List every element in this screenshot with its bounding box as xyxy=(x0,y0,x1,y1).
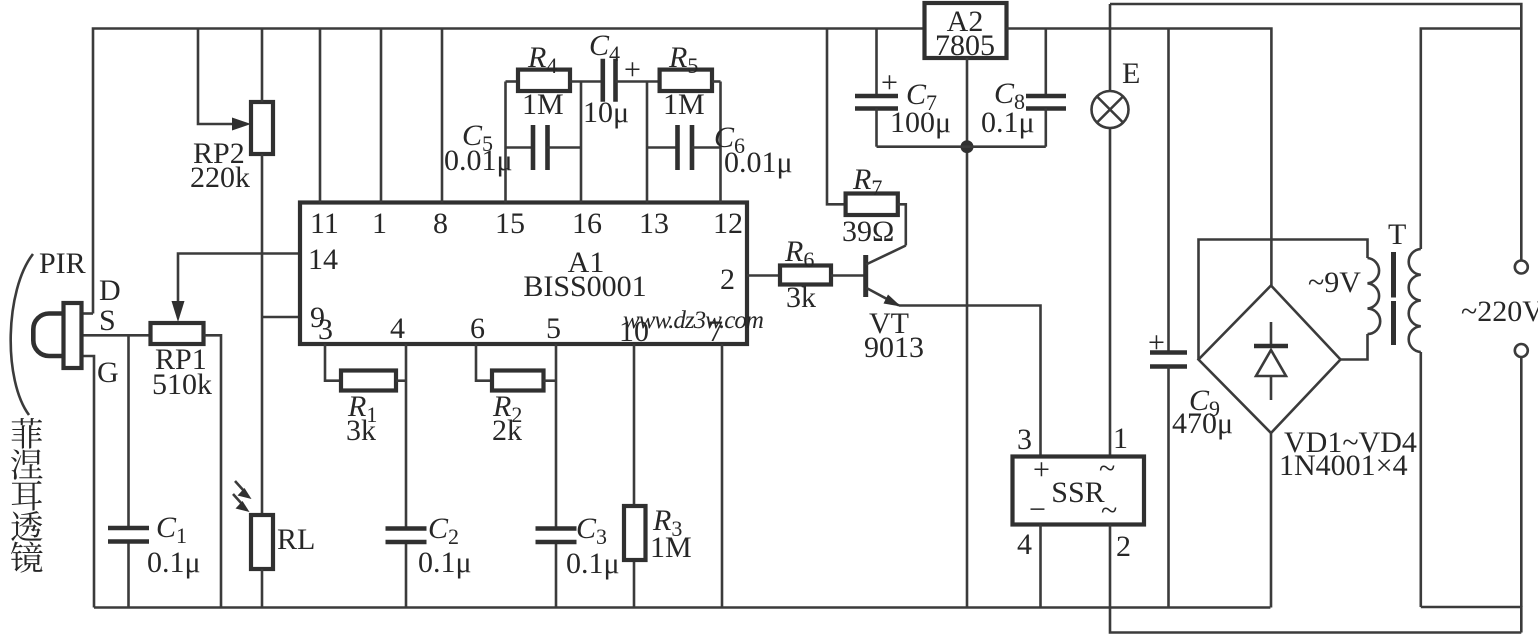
wire D lead xyxy=(82,312,94,315)
svg-text:1: 1 xyxy=(1113,422,1128,455)
wire bridge AC right to secondary bottom xyxy=(1341,334,1368,360)
svg-text:16: 16 xyxy=(572,207,602,240)
svg-text:470μ: 470μ xyxy=(1172,407,1233,440)
PIR sensor dome xyxy=(33,314,63,357)
svg-text:0.01μ: 0.01μ xyxy=(724,146,793,179)
bridge rectifier VD1~VD4 xyxy=(1199,286,1341,434)
svg-text:~: ~ xyxy=(1101,494,1117,527)
wire pin 11 xyxy=(319,29,322,203)
wire mains top xyxy=(1110,4,1521,261)
resistor R4 xyxy=(506,80,519,83)
wire pin 5 xyxy=(555,344,558,529)
svg-text:11: 11 xyxy=(310,207,339,240)
svg-text:0.1μ: 0.1μ xyxy=(147,546,201,579)
Fresnel lens arc xyxy=(11,254,33,415)
capacitor C9 xyxy=(1167,29,1170,353)
svg-text:1: 1 xyxy=(372,207,387,240)
wire A2 ground xyxy=(966,58,969,608)
svg-text:+: + xyxy=(1033,453,1050,486)
PIR sensor package xyxy=(64,303,82,368)
svg-text:1N4001×4: 1N4001×4 xyxy=(1279,449,1408,482)
wire pin 13 xyxy=(646,82,649,203)
capacitor C2 xyxy=(386,526,427,531)
svg-text:5: 5 xyxy=(546,312,561,345)
wire emitter to SSR pin3 xyxy=(899,306,1041,457)
svg-text:D: D xyxy=(99,274,121,307)
wire pin 7 xyxy=(721,344,724,608)
wire pin 1 xyxy=(380,29,383,203)
svg-text:1M: 1M xyxy=(522,88,564,121)
svg-text:~9V: ~9V xyxy=(1308,266,1361,299)
svg-text:9013: 9013 xyxy=(864,331,924,364)
capacitor C7 xyxy=(875,29,878,97)
wire pin 3 stub xyxy=(325,344,341,381)
svg-text:0.1μ: 0.1μ xyxy=(566,547,620,580)
resistor R3 xyxy=(624,506,646,560)
svg-text:SSR: SSR xyxy=(1051,476,1104,509)
svg-text:7: 7 xyxy=(708,315,723,348)
wire primary bottom to mains neutral xyxy=(1421,607,1522,633)
wire pin 10 xyxy=(633,344,636,506)
svg-text:BISS0001: BISS0001 xyxy=(523,270,646,303)
svg-text:8: 8 xyxy=(433,207,448,240)
svg-text:RL: RL xyxy=(277,523,315,556)
wire pin 16 xyxy=(580,82,583,203)
wire top +5V rail xyxy=(93,29,925,314)
svg-text:14: 14 xyxy=(308,243,338,276)
svg-text:3: 3 xyxy=(318,313,333,346)
svg-text:510k: 510k xyxy=(152,368,212,401)
wire mains to transformer primary xyxy=(1421,29,1522,250)
svg-text:−: − xyxy=(1029,493,1046,526)
resistor R2 xyxy=(492,371,544,391)
svg-text:7805: 7805 xyxy=(935,29,995,62)
transistor VT 9013 xyxy=(863,255,868,297)
svg-text:0.1μ: 0.1μ xyxy=(418,546,472,579)
svg-text:2: 2 xyxy=(1116,530,1131,563)
wire pin 6 stub xyxy=(476,344,492,381)
wire G lead xyxy=(82,356,95,608)
svg-text:3: 3 xyxy=(1017,423,1032,456)
wire SSR pin 4 xyxy=(1039,525,1042,608)
wire SSR pin 2 to mains bottom xyxy=(1110,525,1521,633)
potentiometer RP2 xyxy=(251,102,273,154)
svg-text:15: 15 xyxy=(495,207,525,240)
wire pin 8 xyxy=(441,29,444,203)
svg-text:PIR: PIR xyxy=(39,247,86,280)
svg-text:+: + xyxy=(1148,326,1165,359)
svg-text:1M: 1M xyxy=(663,88,705,121)
label Fresnel lens (Chinese) xyxy=(12,418,42,449)
photoresistor RL xyxy=(251,515,273,569)
svg-text:12: 12 xyxy=(713,207,743,240)
transformer core xyxy=(1391,252,1396,298)
wire pin9 to RP2 line xyxy=(262,316,300,319)
resistor R7 xyxy=(827,29,846,205)
transformer T primary winding xyxy=(1409,249,1421,352)
svg-text:~220V: ~220V xyxy=(1461,295,1538,328)
terminal 220V top xyxy=(1515,261,1528,274)
svg-text:~: ~ xyxy=(1099,452,1115,485)
svg-text:E: E xyxy=(1122,57,1140,90)
svg-text:2: 2 xyxy=(720,263,735,296)
svg-text:0.1μ: 0.1μ xyxy=(981,106,1035,139)
svg-text:6: 6 xyxy=(470,312,485,345)
wire pin 12 xyxy=(719,82,722,203)
resistor R1 xyxy=(341,371,396,391)
svg-text:220k: 220k xyxy=(190,161,250,194)
capacitor C5 xyxy=(506,146,534,149)
terminal 220V bottom xyxy=(1515,344,1528,357)
capacitor C6 xyxy=(647,146,678,149)
svg-text:+: + xyxy=(624,53,641,86)
wire 220V bottom terminal down xyxy=(1520,357,1523,607)
IC A1 BISS0001 xyxy=(300,203,747,345)
svg-text:2k: 2k xyxy=(492,414,522,447)
wire bottom ground rail xyxy=(94,606,1270,609)
svg-text:T: T xyxy=(1388,218,1406,251)
relay SSR xyxy=(1013,457,1145,525)
capacitor C4 xyxy=(600,59,605,102)
capacitor C3 xyxy=(536,526,577,531)
resistor R6 xyxy=(780,266,831,285)
wire S lead xyxy=(82,334,151,337)
voltage regulator A2 7805 xyxy=(925,3,1007,58)
svg-text:0.01μ: 0.01μ xyxy=(444,144,513,177)
svg-text:10μ: 10μ xyxy=(583,96,629,129)
svg-text:10: 10 xyxy=(619,315,649,348)
capacitor C8 xyxy=(1045,29,1048,97)
svg-text:100μ: 100μ xyxy=(890,106,951,139)
wire pin 4 xyxy=(405,344,408,529)
wire A2 output rail to bridge + xyxy=(1007,29,1272,286)
svg-text:4: 4 xyxy=(1017,528,1032,561)
svg-text:4: 4 xyxy=(390,312,405,345)
wire pin 15 xyxy=(504,82,507,203)
svg-text:1M: 1M xyxy=(650,531,692,564)
wire bridge AC left to secondary top xyxy=(1199,240,1368,360)
svg-text:39Ω: 39Ω xyxy=(842,215,894,248)
capacitor C1 xyxy=(127,335,130,528)
lamp E xyxy=(1109,4,1112,91)
transformer T secondary winding xyxy=(1368,258,1381,334)
svg-text:+: + xyxy=(881,66,898,99)
svg-text:G: G xyxy=(97,356,119,389)
wire C7-C8 bottom xyxy=(877,145,1046,148)
svg-text:3k: 3k xyxy=(346,414,376,447)
svg-text:3k: 3k xyxy=(786,281,816,314)
wire pin 2 lead xyxy=(747,274,780,277)
svg-text:13: 13 xyxy=(639,207,669,240)
wire lamp to SSR pin 1 xyxy=(1109,128,1112,457)
svg-text:S: S xyxy=(99,304,116,337)
potentiometer RP1 xyxy=(151,323,204,344)
resistor R5 xyxy=(660,70,712,91)
node junction dot xyxy=(961,140,974,153)
